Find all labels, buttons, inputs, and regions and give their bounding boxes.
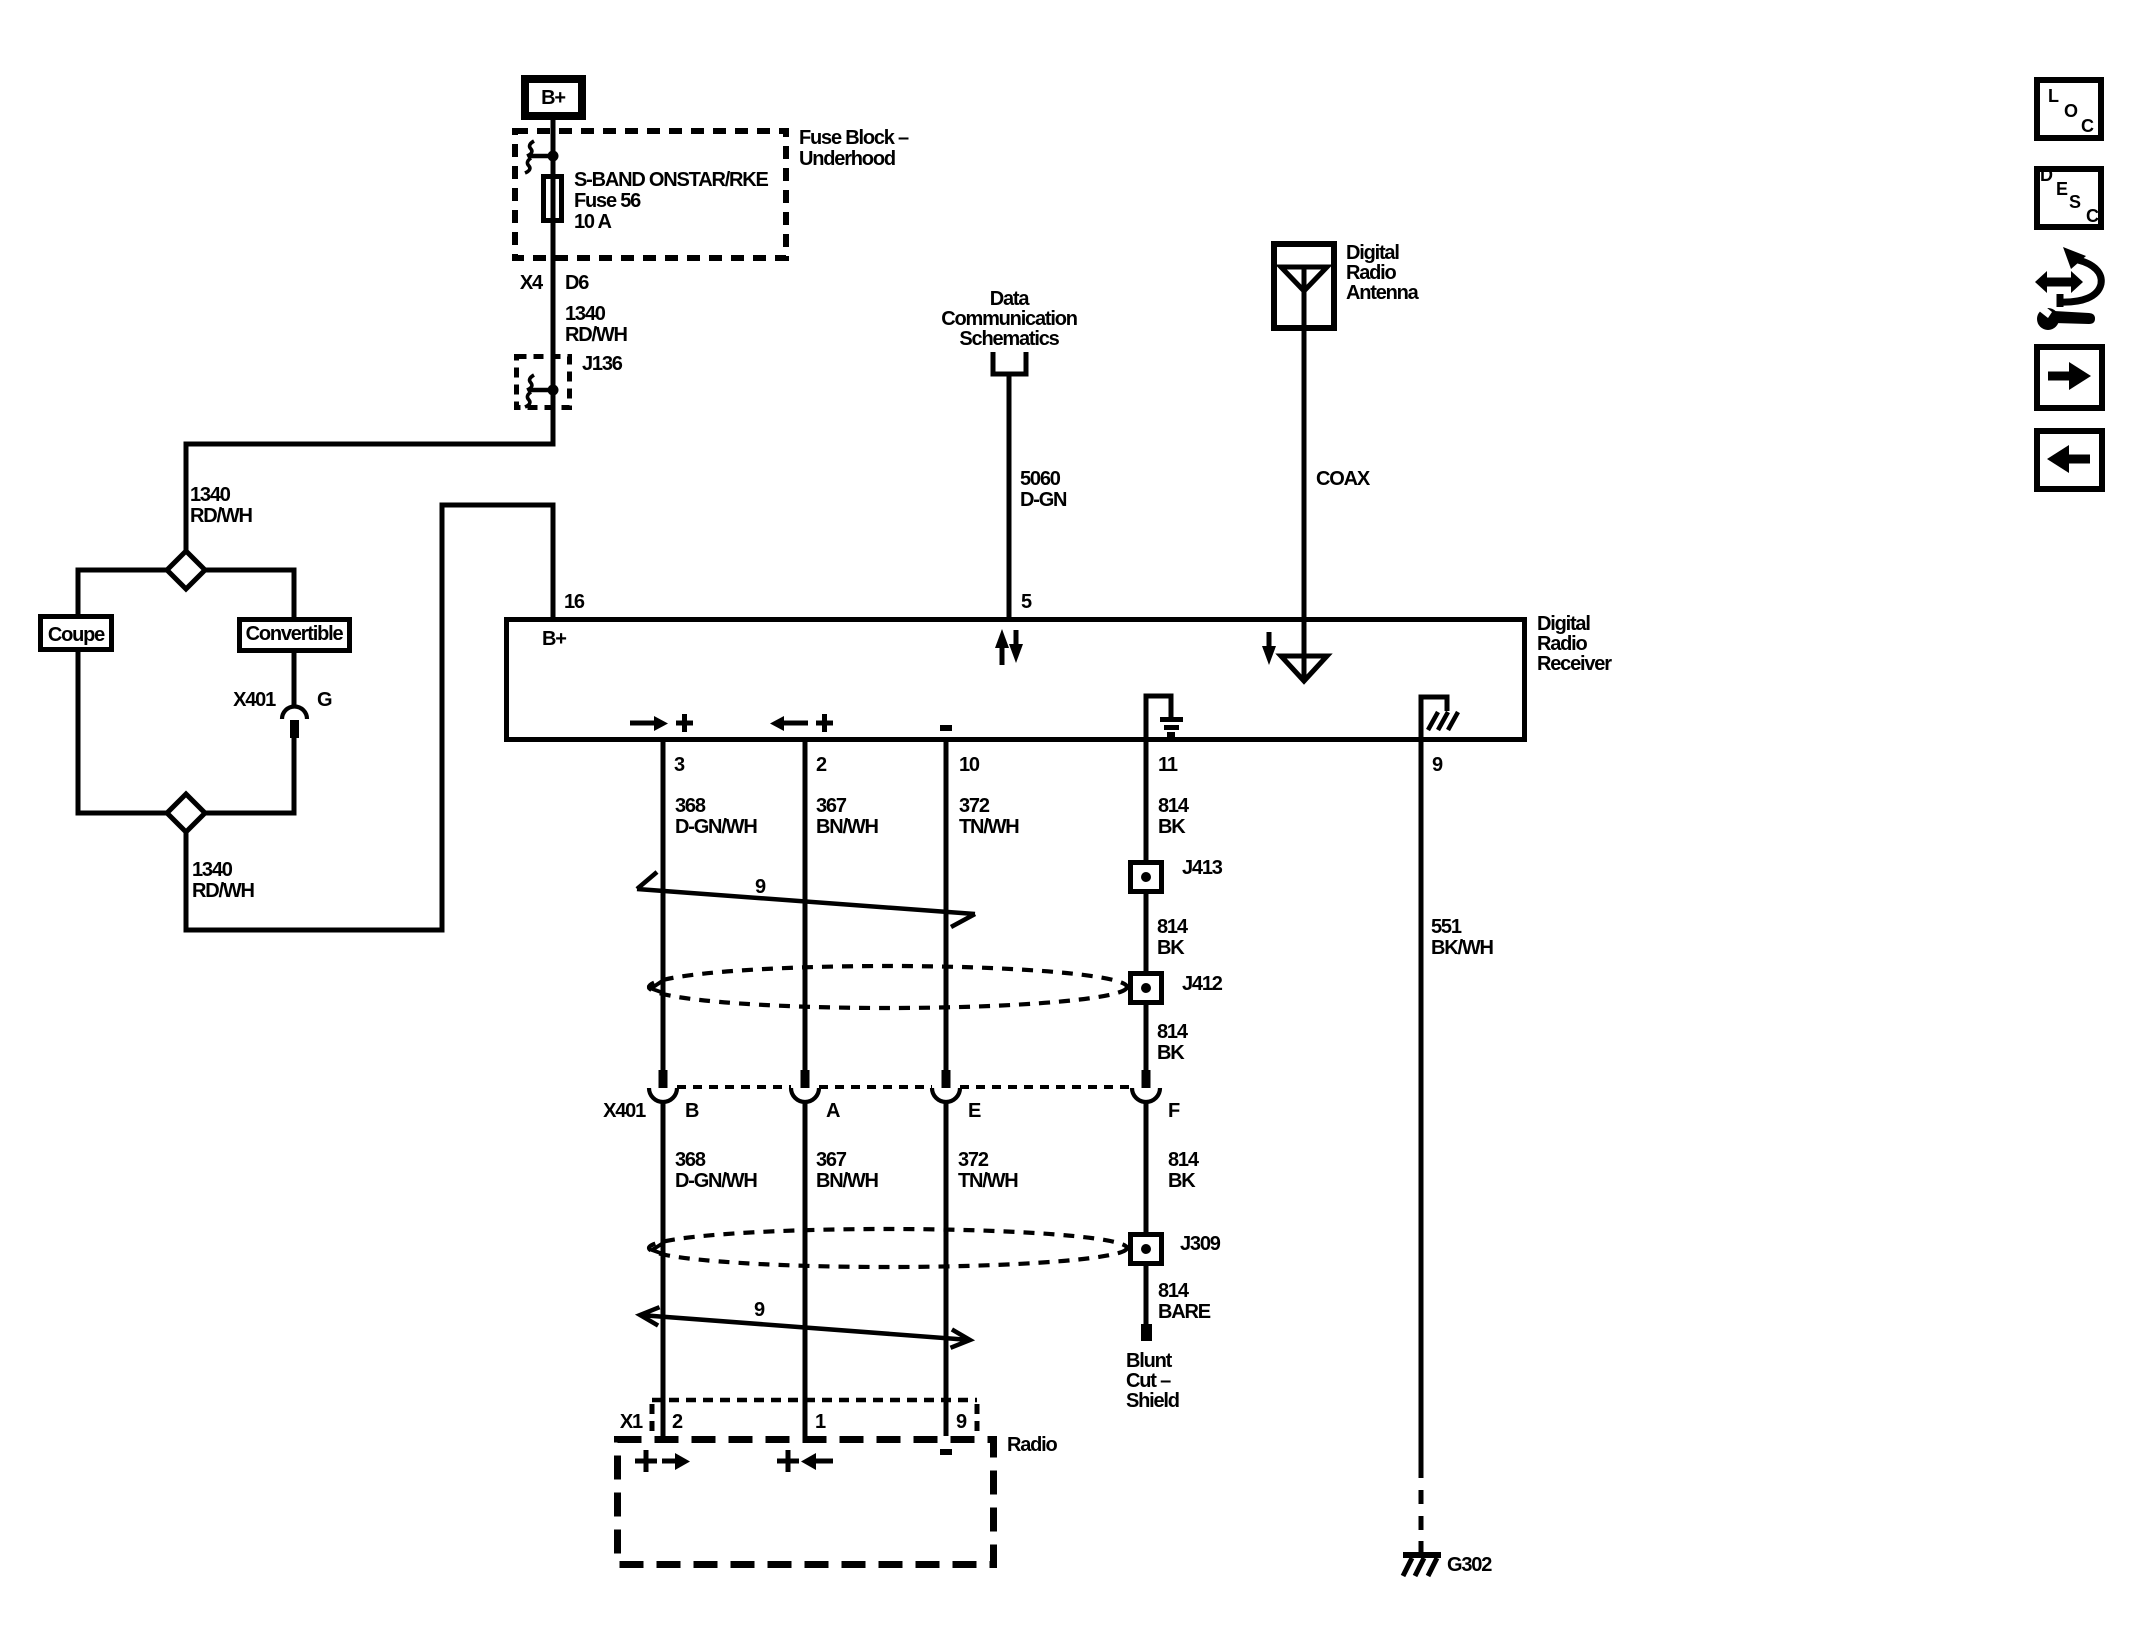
wire 551 BK/WH pin 9: [1419, 742, 1424, 1478]
svg-text:BN/WH: BN/WH: [816, 1170, 879, 1192]
svg-text:9: 9: [754, 1299, 765, 1321]
harness option arrow 9 (upper): [637, 889, 975, 914]
wire 814 BK to J309: [1144, 1101, 1149, 1232]
svg-text:Blunt: Blunt: [1126, 1350, 1173, 1372]
radio pin 2 + output arrow: [635, 1450, 657, 1472]
svg-text:9: 9: [1432, 754, 1443, 776]
box Radio dashed: [618, 1440, 994, 1565]
svg-text:Coupe: Coupe: [48, 624, 105, 646]
wire 367 BN/WH pin 2: [803, 742, 808, 1070]
svg-text:D-GN/WH: D-GN/WH: [675, 816, 757, 838]
earth ground symbol inside receiver (pin 11): [1146, 696, 1171, 742]
connector X1 dashed row: [652, 1398, 977, 1403]
svg-text:Underhood: Underhood: [799, 148, 895, 170]
icon back arrow button: [2037, 431, 2102, 489]
svg-text:BK/WH: BK/WH: [1431, 937, 1494, 959]
svg-text:814: 814: [1157, 1021, 1189, 1043]
svg-text:X401: X401: [233, 689, 276, 711]
svg-text:TN/WH: TN/WH: [959, 816, 1019, 838]
svg-text:RD/WH: RD/WH: [190, 505, 253, 527]
svg-text:Fuse 56: Fuse 56: [574, 190, 641, 212]
wire 814 BK pin 11: [1144, 742, 1149, 860]
pin 10 minus: [940, 725, 952, 731]
svg-text:C: C: [2086, 206, 2099, 226]
svg-text:G302: G302: [1447, 1554, 1492, 1576]
X401 pin F terminal: [1142, 1070, 1151, 1088]
box Convertible: [240, 620, 350, 651]
svg-text:3: 3: [674, 754, 685, 776]
wire from Coupe to bottom diamond: [78, 652, 167, 813]
connector terminal in fuse block: [527, 141, 534, 156]
svg-text:1340: 1340: [565, 303, 606, 325]
splice J412: [1131, 974, 1162, 1003]
pin 3 output arrow and +: [630, 721, 656, 726]
wire 367 BN/WH to radio: [803, 1101, 808, 1436]
svg-text:Digital: Digital: [1346, 242, 1399, 264]
wire 814 BARE to blunt cut: [1144, 1266, 1149, 1324]
svg-text:BARE: BARE: [1158, 1301, 1211, 1323]
chassis ground symbol inside receiver (pin 9): [1421, 697, 1447, 742]
wire 5060 D-GN serial data: [1007, 376, 1012, 617]
svg-text:J413: J413: [1182, 857, 1223, 879]
svg-text:BK: BK: [1157, 937, 1185, 959]
harness option arrow 9 (lower): [640, 1315, 970, 1340]
svg-text:814: 814: [1158, 795, 1190, 817]
X401 pin E terminal: [942, 1070, 951, 1088]
svg-text:2: 2: [672, 1411, 683, 1433]
svg-text:O: O: [2064, 101, 2078, 121]
wire 372 TN/WH pin 10: [944, 742, 949, 1070]
svg-text:Convertible: Convertible: [246, 623, 344, 645]
svg-text:TN/WH: TN/WH: [958, 1170, 1018, 1192]
svg-text:X4: X4: [520, 272, 544, 294]
svg-text:D-GN/WH: D-GN/WH: [675, 1170, 757, 1192]
svg-text:Radio: Radio: [1007, 1434, 1058, 1456]
svg-text:D-GN: D-GN: [1020, 489, 1067, 511]
svg-text:Cut –: Cut –: [1126, 1370, 1171, 1392]
icon LOC button: [2037, 80, 2101, 138]
svg-text:2: 2: [816, 754, 827, 776]
wire to Convertible: [205, 570, 294, 617]
blunt cut shield terminal: [1141, 1324, 1152, 1341]
svg-text:D: D: [2040, 165, 2053, 185]
diamond junction top (body option split): [167, 551, 205, 589]
svg-text:5060: 5060: [1020, 468, 1061, 490]
svg-text:814: 814: [1158, 1280, 1190, 1302]
X401 pin B terminal: [659, 1070, 668, 1088]
svg-text:551: 551: [1431, 916, 1462, 938]
svg-text:X401: X401: [603, 1100, 646, 1122]
icon DESC button: [2037, 169, 2101, 227]
svg-text:B: B: [685, 1100, 699, 1122]
svg-text:J136: J136: [582, 353, 623, 375]
svg-text:Receiver: Receiver: [1537, 653, 1612, 675]
svg-text:10: 10: [959, 754, 980, 776]
diamond junction bottom (body option merge): [167, 794, 205, 832]
svg-text:372: 372: [958, 1149, 989, 1171]
svg-text:1340: 1340: [192, 859, 233, 881]
wire 1340 RD/WH return to receiver pin 16: [186, 505, 553, 930]
svg-text:Data: Data: [990, 288, 1031, 310]
box Digital Radio Receiver: [507, 620, 1525, 740]
svg-text:16: 16: [564, 591, 585, 613]
svg-text:J309: J309: [1180, 1233, 1221, 1255]
svg-text:F: F: [1168, 1100, 1180, 1122]
twisted/shielded cable ellipse lower: [649, 1229, 1127, 1267]
antenna symbol: [1281, 267, 1327, 291]
svg-text:BK: BK: [1158, 816, 1186, 838]
fuse F56 S-BAND ONSTAR/RKE 10A: [544, 177, 562, 221]
svg-text:L: L: [2048, 86, 2059, 106]
svg-text:367: 367: [816, 1149, 847, 1171]
svg-text:368: 368: [675, 795, 706, 817]
svg-text:A: A: [826, 1100, 840, 1122]
svg-text:BK: BK: [1157, 1042, 1185, 1064]
svg-text:367: 367: [816, 795, 847, 817]
bidirectional data arrows inside receiver: [1000, 646, 1005, 665]
svg-text:9: 9: [755, 876, 766, 898]
svg-text:11: 11: [1158, 754, 1178, 776]
svg-text:Shield: Shield: [1126, 1390, 1179, 1412]
splice J309: [1131, 1235, 1162, 1264]
power symbol B+ box: [525, 79, 582, 116]
svg-text:372: 372: [959, 795, 990, 817]
svg-text:Communication: Communication: [941, 308, 1077, 330]
X401 pin A terminal: [801, 1070, 810, 1088]
connector terminal in J136: [527, 375, 534, 390]
svg-text:X1: X1: [620, 1411, 643, 1433]
wire 1340 RD/WH main feed from B+ via fuse to junction: [186, 116, 553, 553]
wire to Coupe: [78, 570, 167, 614]
svg-text:RD/WH: RD/WH: [565, 324, 628, 346]
fuse block underhood dashed outline: [515, 131, 786, 258]
svg-text:5: 5: [1021, 591, 1032, 613]
svg-text:814: 814: [1157, 916, 1189, 938]
wire COAX antenna lead: [1302, 267, 1307, 679]
svg-text:G: G: [317, 689, 332, 711]
wire from Convertible to X401-G: [292, 653, 297, 706]
svg-text:J412: J412: [1182, 973, 1223, 995]
svg-text:1: 1: [815, 1411, 826, 1433]
pin 2 input arrow and +: [782, 721, 808, 726]
svg-text:9: 9: [956, 1411, 967, 1433]
svg-text:S: S: [2069, 192, 2081, 212]
wire 368 D-GN/WH pin 3: [661, 742, 666, 1070]
svg-text:BN/WH: BN/WH: [816, 816, 879, 838]
splice J413: [1131, 863, 1162, 892]
icon diagnostic (arrows and wrench): [2035, 271, 2083, 293]
wire 368 D-GN/WH to radio: [661, 1101, 666, 1436]
ground G302 chassis symbol: [1403, 1552, 1441, 1558]
radio pin 1 + input arrow: [777, 1450, 799, 1472]
radio pin 9 minus: [940, 1449, 952, 1455]
svg-text:Digital: Digital: [1537, 613, 1590, 635]
svg-text:368: 368: [675, 1149, 706, 1171]
svg-text:E: E: [2056, 179, 2068, 199]
svg-text:COAX: COAX: [1316, 468, 1371, 490]
dashed wire to G302: [1419, 1490, 1424, 1553]
wire 814 BK J412 to X401: [1144, 1005, 1149, 1070]
twisted/shielded cable ellipse upper: [649, 966, 1127, 1008]
svg-text:Schematics: Schematics: [959, 328, 1059, 350]
svg-text:Radio: Radio: [1346, 262, 1397, 284]
svg-text:B+: B+: [542, 628, 566, 650]
wire 372 TN/WH to radio: [944, 1101, 949, 1436]
svg-text:Fuse Block –: Fuse Block –: [799, 127, 909, 149]
svg-text:10 A: 10 A: [574, 211, 611, 233]
receive arrow and antenna input inside receiver: [1267, 632, 1272, 648]
svg-text:1340: 1340: [190, 484, 231, 506]
svg-text:Radio: Radio: [1537, 633, 1588, 655]
svg-text:B+: B+: [541, 87, 565, 109]
splice J136 dashed box: [517, 357, 570, 408]
svg-text:814: 814: [1168, 1149, 1200, 1171]
svg-text:D6: D6: [565, 272, 589, 294]
svg-text:RD/WH: RD/WH: [192, 880, 255, 902]
svg-text:BK: BK: [1168, 1170, 1196, 1192]
icon next arrow button: [2037, 347, 2102, 408]
svg-text:S-BAND ONSTAR/RKE: S-BAND ONSTAR/RKE: [574, 169, 769, 191]
wire 814 BK J413 to J412: [1144, 894, 1149, 971]
box Digital Radio Antenna: [1274, 244, 1334, 328]
wire from X401-G to bottom diamond: [205, 738, 294, 813]
svg-text:E: E: [968, 1100, 981, 1122]
connector X401 row dashed line: [677, 1085, 1132, 1089]
svg-text:C: C: [2081, 116, 2094, 136]
box Coupe: [41, 617, 112, 650]
svg-text:Antenna: Antenna: [1346, 282, 1420, 304]
